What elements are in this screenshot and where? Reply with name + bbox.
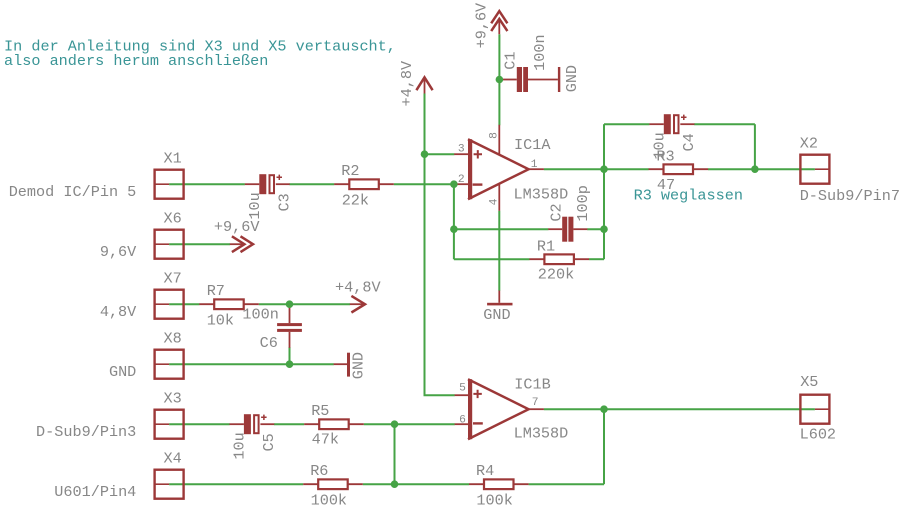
svg-text:2: 2 <box>458 174 465 186</box>
wire node A up to C4 row <box>603 124 605 169</box>
wire C3 to R2 <box>289 183 334 185</box>
capacitor C4 <box>649 114 694 134</box>
wire rail to IC1B pin5 <box>424 394 455 396</box>
svg-text:LM358D: LM358D <box>514 425 569 443</box>
wire IC1A pin4 to GND <box>498 211 500 291</box>
wire node E down to R1 row <box>453 184 455 259</box>
connector X7 <box>155 290 184 319</box>
wire node J1 to node J2 <box>394 424 396 484</box>
resistor R1 <box>529 254 589 264</box>
wire C4 right drop to node B <box>754 124 756 169</box>
wire +4,8V vertical rail <box>424 94 426 396</box>
svg-text:X7: X7 <box>164 270 182 288</box>
svg-text:1: 1 <box>531 159 538 171</box>
svg-text:10u: 10u <box>651 132 669 159</box>
junction node A <box>600 165 608 173</box>
wire R6 to node J2 <box>363 483 395 485</box>
ground at X8 <box>334 353 350 377</box>
wire node A to R3 <box>604 168 649 170</box>
svg-text:100p: 100p <box>574 185 592 221</box>
svg-text:R7: R7 <box>207 282 225 300</box>
svg-text:L602: L602 <box>800 426 836 444</box>
resistor R3 <box>649 164 709 174</box>
wire IC1B output to X5 <box>544 408 815 410</box>
svg-text:9,6V: 9,6V <box>100 243 137 261</box>
connector X6 <box>155 230 184 259</box>
svg-text:GND: GND <box>483 306 510 324</box>
wire C4 row left <box>604 123 649 125</box>
svg-text:220k: 220k <box>538 265 574 283</box>
svg-text:R5: R5 <box>311 402 329 420</box>
svg-text:3: 3 <box>458 144 465 156</box>
junction node D <box>450 225 458 233</box>
svg-text:X3: X3 <box>164 390 182 408</box>
svg-text:10u: 10u <box>231 432 249 459</box>
wire R3 to node B <box>708 168 755 170</box>
junction node G <box>286 300 294 308</box>
wire node G to +4,8V arrow <box>290 303 351 305</box>
wire node B to X2 <box>755 168 815 170</box>
supply +4,8V at X7 <box>350 296 365 313</box>
svg-text:8: 8 <box>488 132 500 139</box>
svg-text:X6: X6 <box>164 210 182 228</box>
wire C6 bottom to node H <box>289 347 291 364</box>
junction node J1 <box>391 420 399 428</box>
resistor R6 <box>303 479 363 489</box>
connector X4 <box>155 470 184 499</box>
svg-text:Demod IC/Pin 5: Demod IC/Pin 5 <box>9 183 137 201</box>
capacitor C6 <box>277 307 302 348</box>
svg-text:C5: C5 <box>260 433 278 451</box>
wire C2 row right <box>587 228 604 230</box>
svg-text:C1: C1 <box>502 51 520 69</box>
wire X1 to C3 <box>169 183 245 185</box>
wire X7 to R7 <box>169 303 199 305</box>
supply +9,6V at X6 <box>230 236 253 252</box>
op-amp IC1B <box>455 379 544 439</box>
svg-text:100n: 100n <box>242 305 278 323</box>
svg-text:+9,6V: +9,6V <box>472 2 490 48</box>
svg-text:D-Sub9/Pin7: D-Sub9/Pin7 <box>800 187 900 205</box>
wire X3 to C5 <box>169 423 230 425</box>
svg-text:X8: X8 <box>164 330 182 348</box>
wire X4 to R6 <box>169 483 303 485</box>
svg-text:X4: X4 <box>164 450 182 468</box>
wire R1 row right <box>589 258 604 260</box>
wire +9,6V down to IC1A pin8 <box>498 34 500 125</box>
svg-text:5: 5 <box>459 382 466 394</box>
junction node J2 <box>391 480 399 488</box>
svg-text:7: 7 <box>532 397 539 409</box>
supply +9,6V top <box>491 11 507 34</box>
wire R5 to node J1 <box>364 423 395 425</box>
svg-text:X5: X5 <box>800 373 818 391</box>
junction node C <box>600 225 608 233</box>
wire X6 to supply arrow <box>169 243 230 245</box>
svg-text:R2: R2 <box>341 162 359 180</box>
svg-text:U601/Pin4: U601/Pin4 <box>54 483 136 501</box>
junction node H <box>286 360 294 368</box>
svg-text:+4,8V: +4,8V <box>335 279 381 297</box>
connector X5 <box>800 395 829 424</box>
svg-text:GND: GND <box>109 363 136 381</box>
junction C1 tap <box>496 76 504 84</box>
svg-text:X2: X2 <box>800 135 818 153</box>
svg-text:4: 4 <box>488 198 500 205</box>
wire R1 row left <box>454 258 530 260</box>
resistor R2 <box>334 179 394 189</box>
svg-text:R3 weglassen: R3 weglassen <box>634 186 743 204</box>
wire C2 row left <box>454 228 549 230</box>
connector X2 <box>800 155 829 184</box>
wire C6 top link <box>289 304 291 307</box>
svg-text:R1: R1 <box>537 237 555 255</box>
junction node E <box>450 180 458 188</box>
wire R4 to riser corner <box>529 483 604 485</box>
svg-text:6: 6 <box>459 415 466 427</box>
resistor R7 <box>199 299 259 309</box>
capacitor C3 <box>245 174 290 194</box>
svg-text:GND: GND <box>563 65 581 92</box>
svg-text:22k: 22k <box>342 191 369 209</box>
wire node F to IC1A pin3 <box>425 153 455 155</box>
svg-text:also anders herum anschließen: also anders herum anschließen <box>4 52 268 70</box>
svg-text:D-Sub9/Pin3: D-Sub9/Pin3 <box>36 423 136 441</box>
svg-text:100k: 100k <box>476 491 512 509</box>
resistor R4 <box>469 479 529 489</box>
svg-text:C3: C3 <box>276 193 294 211</box>
svg-text:GND: GND <box>349 352 367 379</box>
svg-text:+9,6V: +9,6V <box>214 218 260 236</box>
svg-text:C6: C6 <box>260 334 278 352</box>
wire X8 row to GND <box>169 363 334 365</box>
resistor R5 <box>304 419 364 429</box>
connector X8 <box>155 350 184 379</box>
svg-text:100n: 100n <box>531 34 549 70</box>
ground at C1 <box>558 67 560 92</box>
svg-text:LM358D: LM358D <box>514 186 569 204</box>
wire C5 to R5 <box>274 423 304 425</box>
wire node J1 to IC1B pin6 <box>395 423 455 425</box>
junction node F <box>421 150 429 158</box>
svg-text:10u: 10u <box>246 192 264 219</box>
svg-text:C2: C2 <box>547 203 565 221</box>
svg-text:47: 47 <box>657 176 675 194</box>
wire R2 to node E <box>394 183 455 185</box>
svg-text:C4: C4 <box>680 133 698 151</box>
wire node J2 to R4 <box>395 483 470 485</box>
svg-text:47k: 47k <box>312 430 339 448</box>
svg-text:100k: 100k <box>311 491 347 509</box>
svg-text:10k: 10k <box>207 312 234 330</box>
svg-text:R6: R6 <box>310 462 328 480</box>
connector X1 <box>155 170 184 199</box>
ground at IC1A pin4 <box>487 291 512 306</box>
wire feedback riser to node J3 <box>603 409 605 484</box>
capacitor C1 <box>503 67 558 92</box>
op-amp IC1A <box>454 125 544 211</box>
capacitor C5 <box>229 414 274 434</box>
svg-text:X1: X1 <box>164 150 182 168</box>
wire C4 row right <box>694 123 755 125</box>
junction node B <box>751 165 759 173</box>
supply +4,8V top <box>416 77 432 93</box>
wire node A down to R1 row <box>603 169 605 259</box>
svg-text:IC1B: IC1B <box>514 376 550 394</box>
svg-text:4,8V: 4,8V <box>100 303 137 321</box>
svg-text:+4,8V: +4,8V <box>398 60 416 106</box>
wire IC1A output to node A <box>544 168 604 170</box>
wire R7 to node G <box>259 303 290 305</box>
svg-text:IC1A: IC1A <box>514 136 551 154</box>
junction node J3 <box>600 405 608 413</box>
svg-text:R4: R4 <box>476 462 494 480</box>
connector X3 <box>155 410 184 439</box>
capacitor C2 <box>548 217 587 242</box>
